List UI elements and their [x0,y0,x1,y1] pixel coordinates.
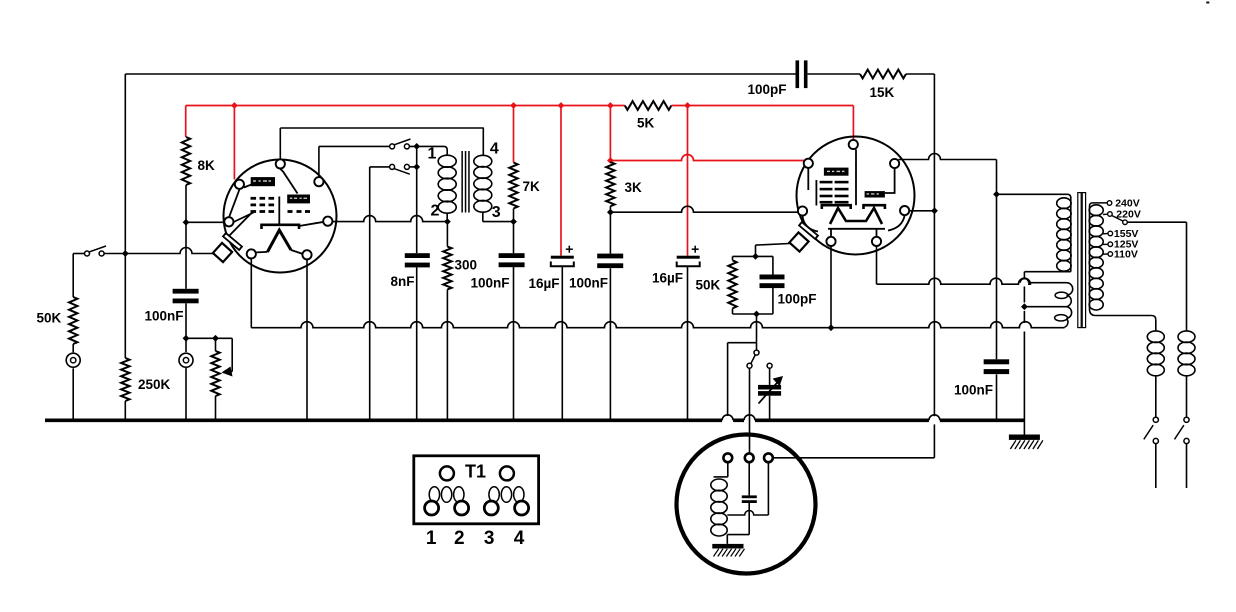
svg-text:15K: 15K [870,85,895,100]
svg-text:100pF: 100pF [748,82,787,97]
svg-text:100nF: 100nF [471,276,510,291]
svg-text:7K: 7K [523,179,541,194]
svg-text:8K: 8K [198,158,216,173]
svg-text:2: 2 [431,203,440,220]
svg-text:1: 1 [428,146,437,163]
svg-text:100nF: 100nF [569,276,608,291]
svg-text:50K: 50K [37,311,62,326]
svg-text:100nF: 100nF [145,309,184,324]
svg-text:3: 3 [492,204,501,221]
svg-text:5K: 5K [637,116,655,131]
svg-text:100nF: 100nF [954,383,993,398]
svg-text:1: 1 [426,528,437,549]
svg-text:220V: 220V [1116,208,1141,220]
svg-text:2: 2 [454,528,465,549]
svg-text:50K: 50K [696,278,721,293]
svg-text:250K: 250K [138,377,171,392]
svg-text:T1: T1 [465,462,486,482]
svg-text:300: 300 [455,258,478,273]
svg-text:4: 4 [490,141,499,158]
svg-text:3: 3 [484,528,495,549]
svg-text:4: 4 [514,528,525,549]
svg-text:3K: 3K [625,180,643,195]
svg-text:16µF: 16µF [652,271,683,286]
svg-text:16µF: 16µF [529,276,560,291]
svg-text:110V: 110V [1114,249,1138,261]
svg-text:8nF: 8nF [391,274,415,289]
svg-text:100pF: 100pF [778,292,817,307]
